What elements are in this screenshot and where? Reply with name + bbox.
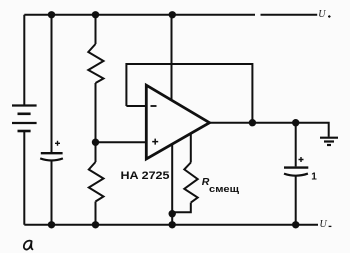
svg-text:HA 2725: HA 2725 [121,170,170,182]
svg-text:1: 1 [311,171,317,182]
svg-text:U: U [320,219,328,230]
svg-text:смещ: смещ [209,184,239,194]
svg-text:U: U [318,9,326,20]
